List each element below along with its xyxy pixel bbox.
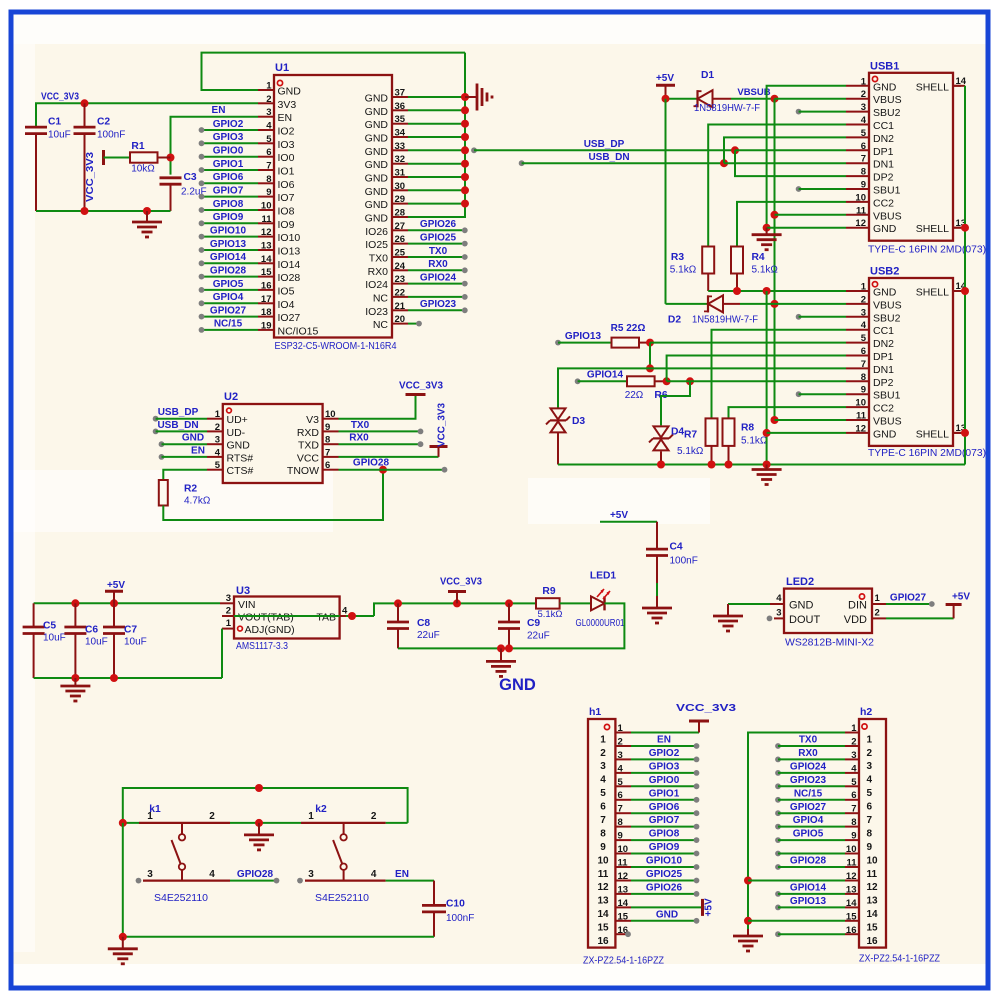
svg-text:GND: GND xyxy=(873,223,897,235)
net label GPIO9 xyxy=(213,212,244,223)
svg-text:9: 9 xyxy=(618,831,623,842)
wire USB_DN U2 xyxy=(153,429,207,435)
svg-text:C7: C7 xyxy=(124,625,137,636)
wire LED2 DOUT nc xyxy=(767,616,773,622)
svg-text:12: 12 xyxy=(855,218,866,229)
svg-text:5.1kΩ: 5.1kΩ xyxy=(670,265,697,276)
net label NC/15 xyxy=(214,319,243,330)
svg-text:USB_DP: USB_DP xyxy=(158,407,199,418)
svg-text:V3: V3 xyxy=(306,414,319,426)
resistor R5 22R xyxy=(611,323,650,348)
svg-text:3: 3 xyxy=(308,869,314,880)
svg-text:1: 1 xyxy=(861,76,867,87)
svg-text:4: 4 xyxy=(209,869,215,880)
net label GPIO27 xyxy=(890,593,927,604)
svg-text:GPIO13: GPIO13 xyxy=(790,896,827,907)
power port +5V at C4 xyxy=(600,510,657,522)
net label EN k2 xyxy=(395,869,409,880)
svg-text:7: 7 xyxy=(618,804,623,815)
svg-text:19: 19 xyxy=(261,320,272,331)
svg-text:C6: C6 xyxy=(85,625,98,636)
svg-text:LED1: LED1 xyxy=(590,571,617,582)
net label EN U2 xyxy=(191,446,205,457)
svg-text:UD+: UD+ xyxy=(227,414,248,426)
wire CC2 USB2 to R8 xyxy=(729,407,847,418)
svg-text:GND: GND xyxy=(365,159,389,171)
power port +5V at D1 xyxy=(656,73,675,99)
wire U1 pin22 xyxy=(408,294,468,300)
net label GPIO13 h2 xyxy=(790,896,827,907)
connector USB2 TYPE-C xyxy=(846,266,986,459)
connector h1 ZX-PZ2.54-1-16PZZ xyxy=(583,706,664,967)
wire U1 pin23 xyxy=(408,281,468,287)
svg-text:9: 9 xyxy=(325,422,330,433)
wire k1 pin4 GPIO28 xyxy=(230,878,279,884)
wire switch row net xyxy=(119,819,408,827)
svg-text:GPIO2: GPIO2 xyxy=(649,748,680,759)
svg-text:17: 17 xyxy=(261,294,272,305)
wire CC1 USB1 to R3 xyxy=(708,125,846,247)
svg-text:VDD: VDD xyxy=(844,614,867,626)
svg-text:30: 30 xyxy=(395,181,406,192)
ground USB2 xyxy=(752,465,782,485)
svg-text:IO7: IO7 xyxy=(278,192,295,204)
svg-text:6: 6 xyxy=(325,460,330,471)
svg-text:RX0: RX0 xyxy=(368,266,389,278)
svg-text:2: 2 xyxy=(226,606,231,617)
svg-text:DN1: DN1 xyxy=(873,159,894,171)
svg-text:GND: GND xyxy=(873,428,897,440)
wire bottom GND rail USB2 xyxy=(558,461,965,469)
diode D1 1N5819HW-7-F xyxy=(666,70,775,114)
wire GPIO6 U1 pin8 xyxy=(199,180,258,186)
net label GPIO7 h1 xyxy=(649,815,680,826)
wire CC1 USB2 to R7 xyxy=(712,330,847,419)
svg-text:GND: GND xyxy=(227,440,251,452)
svg-text:GPIO9: GPIO9 xyxy=(649,842,680,853)
wire VCC_3V3 to U1 pin2 xyxy=(36,99,258,127)
wire h1 pin2 EN xyxy=(631,743,699,749)
wire h2 pin10 xyxy=(775,851,845,857)
wire h2 pin9 GPIO5 xyxy=(775,837,845,843)
wire U1 pin20 NC xyxy=(408,321,422,327)
wire h2 pin11 GPIO28 xyxy=(775,864,845,870)
power port VCC_3V3 at R1 xyxy=(85,150,130,202)
svg-text:10: 10 xyxy=(846,844,857,855)
net label EN h1 xyxy=(657,735,671,746)
wire U1 pin25 xyxy=(408,254,468,260)
svg-text:7: 7 xyxy=(600,815,606,826)
svg-text:3: 3 xyxy=(861,307,866,318)
svg-text:22Ω: 22Ω xyxy=(625,390,644,401)
svg-text:4: 4 xyxy=(851,763,857,774)
svg-text:NC/15: NC/15 xyxy=(794,788,823,799)
svg-text:GPIO10: GPIO10 xyxy=(646,856,683,867)
wire GPIO5 U1 pin16 xyxy=(199,287,258,293)
svg-text:25: 25 xyxy=(395,248,406,259)
svg-text:GND: GND xyxy=(365,146,389,158)
wire h2 pin1 GND vertical xyxy=(744,733,845,930)
wire k2 pin4 EN to C10 xyxy=(386,880,434,882)
svg-text:R7: R7 xyxy=(684,430,697,441)
svg-text:9: 9 xyxy=(600,842,606,853)
power port +5V h1 xyxy=(703,898,715,916)
svg-text:CC2: CC2 xyxy=(873,403,894,415)
power port VCC_3V3 h1 xyxy=(676,703,737,733)
svg-text:GPIO6: GPIO6 xyxy=(213,172,244,183)
net label EN xyxy=(212,105,226,116)
svg-text:IO1: IO1 xyxy=(278,166,295,178)
svg-text:13: 13 xyxy=(261,241,272,252)
svg-text:GPIO2: GPIO2 xyxy=(213,119,244,130)
svg-text:GPIO27: GPIO27 xyxy=(790,802,827,813)
svg-text:TX0: TX0 xyxy=(799,735,818,746)
capacitor C2 xyxy=(74,103,126,211)
ground switch rail xyxy=(108,937,138,964)
capacitor C10 xyxy=(422,881,474,937)
svg-text:3: 3 xyxy=(600,761,606,772)
svg-text:TNOW: TNOW xyxy=(287,465,319,477)
IC LED2 WS2812B-MINI-X2 xyxy=(770,576,886,649)
svg-text:21: 21 xyxy=(395,301,406,312)
resistor R4 5.1k xyxy=(731,247,778,292)
svg-text:20: 20 xyxy=(395,314,406,325)
svg-text:18: 18 xyxy=(261,307,272,318)
svg-text:8: 8 xyxy=(851,817,856,828)
ground switch row xyxy=(244,823,274,850)
svg-text:15: 15 xyxy=(618,911,629,922)
wire R2 to TNOW GPIO28 xyxy=(163,466,447,520)
svg-text:4: 4 xyxy=(371,869,377,880)
resistor R7 5.1k xyxy=(706,418,718,464)
ground h2 xyxy=(733,929,763,951)
net label NC/15 h2 xyxy=(794,788,823,799)
svg-text:VBUS: VBUS xyxy=(873,210,902,222)
svg-text:10kΩ: 10kΩ xyxy=(131,164,155,175)
svg-text:GPIO13: GPIO13 xyxy=(210,239,247,250)
svg-text:IO5: IO5 xyxy=(278,285,295,297)
svg-text:U1: U1 xyxy=(275,62,289,74)
wire h2 pin2 TX0 xyxy=(775,743,845,749)
svg-text:6: 6 xyxy=(618,790,623,801)
wire k2 pin3 nc xyxy=(297,878,303,884)
net label GPIO9 h1 xyxy=(649,842,680,853)
IC U2 USB-UART bridge xyxy=(207,391,339,483)
net label GPIO28 k1 xyxy=(237,869,274,880)
svg-text:9: 9 xyxy=(266,187,271,198)
svg-text:GPIO7: GPIO7 xyxy=(649,815,680,826)
wire GND rail C1 C2 C3 xyxy=(36,207,171,215)
wire USB2 GND vertical xyxy=(763,291,846,465)
wire USB_DP xyxy=(471,146,846,154)
wire USB_DP U2 xyxy=(153,416,207,422)
wire h2 pin7 GPIO27 xyxy=(775,810,845,816)
svg-text:7: 7 xyxy=(266,161,271,172)
net label USB_DN xyxy=(588,152,629,163)
svg-text:27: 27 xyxy=(395,221,406,232)
wire EN net U1 pin3 xyxy=(167,117,259,175)
svg-text:GND: GND xyxy=(789,600,814,612)
svg-text:16: 16 xyxy=(597,936,609,947)
svg-text:13: 13 xyxy=(597,896,609,907)
svg-text:IO8: IO8 xyxy=(278,206,295,218)
net label GPIO26 xyxy=(420,219,457,230)
net label USB_DN U2 xyxy=(157,420,198,431)
ground U1 GND bus xyxy=(465,84,492,111)
svg-text:C4: C4 xyxy=(670,542,683,553)
svg-text:5.1kΩ: 5.1kΩ xyxy=(741,436,768,447)
net label GPIO26 h1 xyxy=(646,883,683,894)
svg-text:3: 3 xyxy=(861,102,866,113)
svg-text:GPIO4: GPIO4 xyxy=(213,292,244,303)
wire GPIO4 U1 pin17 xyxy=(199,300,258,306)
svg-text:8: 8 xyxy=(266,174,271,185)
svg-text:12: 12 xyxy=(618,871,629,882)
svg-text:GND: GND xyxy=(182,433,204,444)
wire USB1 GND pins xyxy=(763,86,846,232)
svg-text:GPIO14: GPIO14 xyxy=(210,252,247,263)
TVS diode D4 xyxy=(649,426,704,464)
svg-text:6: 6 xyxy=(867,802,873,813)
net label GPIO28 h2 xyxy=(790,856,827,867)
node VBSUB xyxy=(662,87,779,103)
svg-text:GPIO14: GPIO14 xyxy=(790,883,827,894)
svg-text:7: 7 xyxy=(325,447,330,458)
resistor R6 22R xyxy=(625,376,668,401)
svg-text:14: 14 xyxy=(846,898,857,909)
svg-text:2: 2 xyxy=(209,811,215,822)
net label GPIO28 xyxy=(210,265,247,276)
svg-text:U3: U3 xyxy=(236,585,250,597)
svg-text:5.1kΩ: 5.1kΩ xyxy=(677,446,704,457)
wire GPIO8 U1 pin10 xyxy=(199,207,258,213)
wire GPIO2 U1 pin4 xyxy=(199,127,258,133)
svg-text:IO25: IO25 xyxy=(365,239,388,251)
svg-text:10: 10 xyxy=(618,844,629,855)
svg-text:7: 7 xyxy=(861,154,866,165)
wire GPIO10 U1 pin12 xyxy=(199,234,258,240)
svg-text:8: 8 xyxy=(618,817,623,828)
net label GPIO24 h2 xyxy=(790,762,827,773)
connector h2 ZX-PZ2.54-1-16PZZ xyxy=(845,706,940,965)
svg-text:UD-: UD- xyxy=(227,427,246,439)
svg-text:VCC_3V3: VCC_3V3 xyxy=(85,152,96,202)
svg-text:16: 16 xyxy=(867,936,879,947)
svg-text:R2: R2 xyxy=(184,484,197,495)
svg-text:35: 35 xyxy=(395,114,406,125)
power port VCC_3V3 rail xyxy=(440,577,482,604)
svg-text:GPIO0: GPIO0 xyxy=(213,146,244,157)
TVS diode D3 xyxy=(546,408,585,464)
svg-text:4: 4 xyxy=(342,606,348,617)
capacitor C9 xyxy=(498,603,550,648)
svg-text:16: 16 xyxy=(846,925,857,936)
svg-text:1N5819HW-7-F: 1N5819HW-7-F xyxy=(692,315,758,326)
svg-text:6: 6 xyxy=(861,346,866,357)
net label GPIO14 xyxy=(210,252,247,263)
net label GPIO13 xyxy=(565,331,602,342)
wire h1 pin15 GND xyxy=(631,918,699,924)
svg-text:16: 16 xyxy=(261,280,272,291)
svg-text:GPIO4: GPIO4 xyxy=(793,815,824,826)
svg-text:11: 11 xyxy=(867,869,878,880)
svg-text:GPIO26: GPIO26 xyxy=(420,219,457,230)
svg-text:11: 11 xyxy=(856,411,867,422)
svg-text:GPIO7: GPIO7 xyxy=(213,185,244,196)
wire DIN GPIO27 xyxy=(886,601,935,607)
wire h1 pin3 GPIO2 xyxy=(631,757,699,763)
resistor R2 4.7k xyxy=(159,480,211,507)
net label GPIO5 h2 xyxy=(793,829,824,840)
svg-text:VCC: VCC xyxy=(297,452,320,464)
svg-text:14: 14 xyxy=(618,898,629,909)
switch k1 S4E252110 xyxy=(139,823,230,904)
svg-text:4: 4 xyxy=(266,121,272,132)
net label GPIO6 h1 xyxy=(649,802,680,813)
svg-text:3: 3 xyxy=(226,593,231,604)
svg-text:GPIO26: GPIO26 xyxy=(646,883,683,894)
wire V3 to VCC_3V3 xyxy=(339,396,416,419)
svg-text:GPIO8: GPIO8 xyxy=(213,199,244,210)
svg-text:2: 2 xyxy=(875,607,880,618)
svg-text:R3: R3 xyxy=(671,252,684,263)
wire SBU1 USB2 xyxy=(796,391,846,397)
svg-text:R9: R9 xyxy=(542,586,555,597)
svg-text:NC: NC xyxy=(373,292,389,304)
svg-text:1: 1 xyxy=(600,734,606,745)
net label GPIO5 xyxy=(213,279,244,290)
svg-text:SBU1: SBU1 xyxy=(873,390,901,402)
capacitor C6 xyxy=(64,603,107,678)
svg-text:DP2: DP2 xyxy=(873,172,894,184)
svg-text:+5V: +5V xyxy=(656,73,674,84)
svg-text:EN: EN xyxy=(278,112,293,124)
svg-text:GPIO28: GPIO28 xyxy=(353,458,390,469)
svg-text:VBUS: VBUS xyxy=(873,299,902,311)
wire U1 pin24 xyxy=(408,267,468,273)
wire k1 pin3 nc xyxy=(136,878,142,884)
wire switch bottom GND rail xyxy=(119,823,434,941)
svg-text:DN1: DN1 xyxy=(873,364,894,376)
svg-text:SHELL: SHELL xyxy=(916,81,949,93)
svg-text:DP2: DP2 xyxy=(873,377,894,389)
wire GND rail C5 C6 C7 xyxy=(34,674,222,682)
svg-text:11: 11 xyxy=(598,869,609,880)
svg-text:ZX-PZ2.54-1-16PZZ: ZX-PZ2.54-1-16PZZ xyxy=(583,956,664,967)
power port VCC_3V3 U2 VCC xyxy=(430,403,448,457)
wire +5V vertical D1 to D2 xyxy=(665,99,667,304)
svg-text:GPIO8: GPIO8 xyxy=(649,829,680,840)
wire h1 pin11 GPIO10 xyxy=(631,864,699,870)
net label GPIO2 h1 xyxy=(649,748,680,759)
wire GPIO0 U1 pin6 xyxy=(199,154,258,160)
net label GPIO14 h2 xyxy=(790,883,827,894)
svg-text:USB2: USB2 xyxy=(870,266,899,278)
svg-text:GND: GND xyxy=(365,93,389,105)
svg-text:11: 11 xyxy=(261,214,272,225)
svg-text:5: 5 xyxy=(266,134,272,145)
connector USB1 TYPE-C xyxy=(846,61,986,256)
wire ADJ to GND rail xyxy=(221,629,223,678)
svg-text:3: 3 xyxy=(867,761,873,772)
wire GPIO28 U1 pin15 xyxy=(199,274,258,280)
svg-text:GPIO3: GPIO3 xyxy=(213,132,244,143)
svg-text:GND: GND xyxy=(365,199,389,211)
wire h1 pin10 GPIO9 xyxy=(631,851,699,857)
wire h1 pin6 GPIO1 xyxy=(631,797,699,803)
svg-text:AMS1117-3.3: AMS1117-3.3 xyxy=(236,641,288,652)
svg-text:5: 5 xyxy=(600,788,606,799)
net label GPIO8 xyxy=(213,199,244,210)
svg-text:37: 37 xyxy=(395,88,406,99)
svg-text:IO3: IO3 xyxy=(278,139,295,151)
net label GPIO25 xyxy=(420,232,457,243)
wire NC/15 U1 pin19 xyxy=(199,327,258,333)
wire h2 pin3 RX0 xyxy=(775,757,845,763)
wire DN2 tie USB1 xyxy=(724,137,846,163)
svg-text:GND: GND xyxy=(365,119,389,131)
svg-text:7: 7 xyxy=(851,804,856,815)
net label GPIO6 xyxy=(213,172,244,183)
svg-text:k2: k2 xyxy=(315,804,327,815)
svg-text:GPIO27: GPIO27 xyxy=(210,305,247,316)
net label GPIO24 xyxy=(420,272,457,283)
svg-text:GND: GND xyxy=(365,106,389,118)
power port +5V U3 xyxy=(105,580,125,603)
svg-text:TX0: TX0 xyxy=(351,420,370,431)
svg-text:VCC_3V3: VCC_3V3 xyxy=(41,92,79,103)
ground LED2 xyxy=(713,604,743,631)
wire GPIO27 U1 pin18 xyxy=(199,314,258,320)
wire LED1 cathode to GND rail xyxy=(398,603,624,652)
svg-text:22uF: 22uF xyxy=(417,630,440,641)
svg-text:24: 24 xyxy=(395,261,406,272)
svg-text:IO9: IO9 xyxy=(278,219,295,231)
svg-text:3: 3 xyxy=(618,750,623,761)
svg-text:EN: EN xyxy=(395,869,409,880)
svg-text:12: 12 xyxy=(261,227,272,238)
net label GPIO0 h1 xyxy=(649,775,680,786)
svg-text:26: 26 xyxy=(395,234,406,245)
svg-text:3: 3 xyxy=(147,869,153,880)
svg-text:32: 32 xyxy=(395,154,406,165)
net label GPIO14 xyxy=(587,370,624,381)
svg-text:10: 10 xyxy=(597,855,609,866)
svg-text:DN2: DN2 xyxy=(873,133,894,145)
svg-text:TAB: TAB xyxy=(316,611,336,623)
svg-text:NC/IO15: NC/IO15 xyxy=(278,325,319,337)
net label RX0 U2 xyxy=(349,433,369,444)
net label GPIO4 xyxy=(213,292,244,303)
svg-text:4: 4 xyxy=(215,447,221,458)
svg-text:8: 8 xyxy=(861,167,866,178)
wire h1 pin12 GPIO25 xyxy=(631,878,699,884)
wire h1 pin8 GPIO7 xyxy=(631,824,699,830)
svg-text:IO2: IO2 xyxy=(278,126,295,138)
wire DP2 DP1 USB2 from R6 xyxy=(661,356,846,426)
svg-text:3: 3 xyxy=(215,435,220,446)
svg-text:9: 9 xyxy=(851,831,856,842)
svg-text:GPIO23: GPIO23 xyxy=(790,775,827,786)
net label GPIO3 h1 xyxy=(649,762,680,773)
svg-text:12: 12 xyxy=(867,882,879,893)
svg-text:TXD: TXD xyxy=(298,440,319,452)
IC U3 AMS1117-3.3 xyxy=(220,585,348,652)
svg-text:2: 2 xyxy=(215,422,220,433)
LED LED1 xyxy=(560,571,625,630)
svg-text:8: 8 xyxy=(325,435,330,446)
svg-text:1: 1 xyxy=(226,618,232,629)
